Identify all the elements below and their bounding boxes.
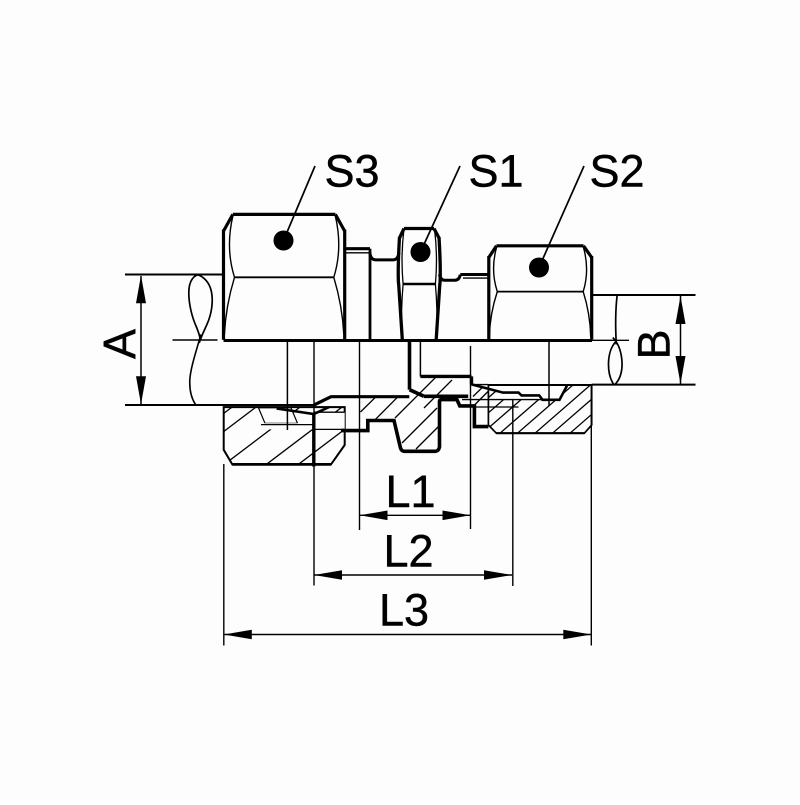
svg-text:S1: S1 (468, 146, 523, 197)
svg-text:S3: S3 (324, 146, 379, 197)
svg-text:B: B (628, 329, 679, 359)
svg-text:L1: L1 (385, 466, 435, 517)
svg-text:L3: L3 (379, 585, 429, 636)
svg-text:A: A (94, 329, 145, 359)
svg-text:L2: L2 (383, 526, 433, 577)
svg-text:S2: S2 (589, 146, 644, 197)
